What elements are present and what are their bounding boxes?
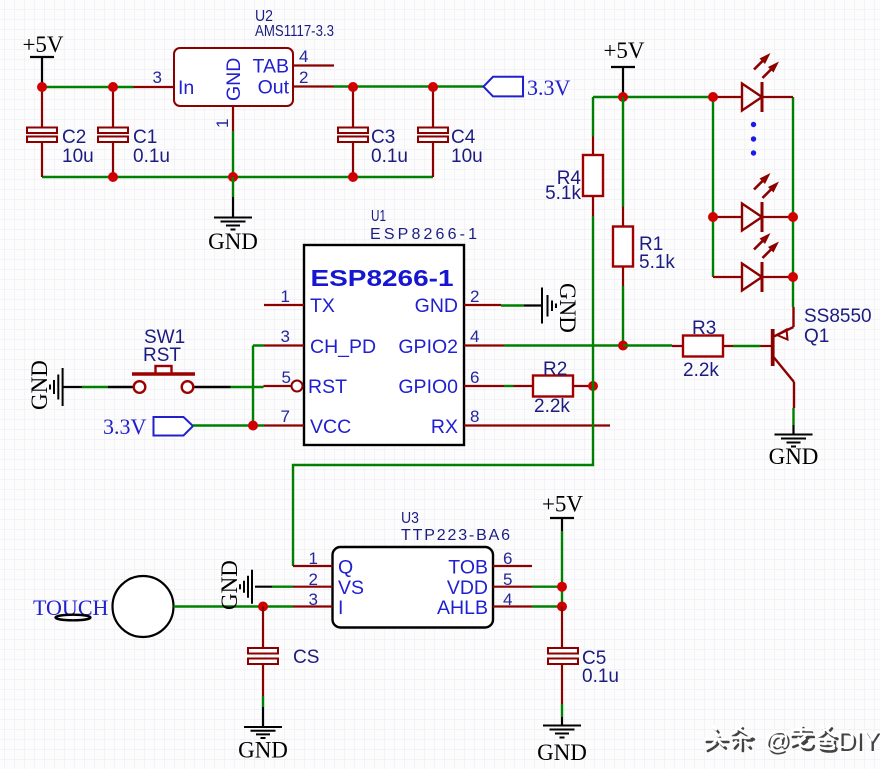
capacitor CS [248,607,319,697]
wire U2 pin1 to gnd rail [232,131,234,177]
U1 pin 6 GPIO0 [398,368,504,398]
wire +5V rail to U2 In [42,86,134,88]
svg-text:TAB: TAB [253,56,289,78]
net flag 3.3V (to VCC) [103,414,264,439]
svg-text:6: 6 [503,549,512,568]
svg-text:RST: RST [308,376,347,398]
svg-text:5.1k: 5.1k [545,183,581,204]
U1 pin 5 RST (inverted) [264,368,348,398]
svg-text:2: 2 [309,570,318,589]
svg-text:7: 7 [281,407,290,426]
U2 pin 1 GND (bottom) [213,58,245,131]
node junction (623,345.5) [618,341,628,351]
wire R1 down to GPIO2 node [622,286,624,346]
svg-text:2.2k: 2.2k [534,396,570,417]
U3 pin 6 TOB [448,549,532,579]
svg-text:GND: GND [555,283,580,333]
wire TOUCH to U3 pin I [174,605,294,607]
U1 pin 3 CH_PD [264,327,376,358]
wire Q1 emitter to gnd [792,408,794,425]
wire bottom gnd rail [42,176,433,178]
svg-text:+5V: +5V [542,492,583,517]
ground (under CS) [238,696,288,763]
svg-text:SS8550: SS8550 [804,306,872,327]
ground (under U2) [208,177,258,254]
capacitor C1 [98,87,170,177]
dotted continuation marks [751,122,756,127]
LED anode rail (left) [712,97,714,277]
svg-text:VCC: VCC [310,416,351,438]
power flag +5V (bottom) [542,492,583,532]
svg-text:I: I [338,597,343,619]
U3 pin 3 I [293,590,343,619]
node junction (353,87) [348,82,358,92]
svg-text:3.3V: 3.3V [103,414,147,439]
node junction (253,425.5) [248,421,258,431]
wire R1 branch [622,97,624,207]
svg-text:+5V: +5V [603,38,644,63]
node junction (562,586.7) [557,582,567,592]
capacitor C5 [548,607,619,705]
capacitor C4 [418,87,483,177]
svg-text:AHLB: AHLB [437,597,488,619]
U1 pin 4 GPIO2 [398,327,504,358]
U3 pin 1 Q [293,549,353,579]
node junction (433,87) [428,82,438,92]
LED D2 [713,173,793,232]
resistor R3 2.2k [672,318,733,381]
wire R3 to Q1 base [733,345,761,347]
svg-text:Q1: Q1 [804,326,829,347]
svg-text:GND: GND [217,560,242,610]
node junction (793,277) [788,272,798,282]
regulator U2 AMS1117-3.3 body [174,8,334,106]
svg-text:1: 1 [281,287,290,306]
node junction (233,177) [228,172,238,182]
U3 pin 4 AHLB [437,590,532,619]
svg-text:C4: C4 [451,127,476,148]
svg-text:5: 5 [282,368,291,387]
svg-text:GPIO2: GPIO2 [398,336,458,358]
svg-text:5: 5 [503,570,512,589]
net flag 3.3V (output) [484,75,571,100]
svg-text:GND: GND [223,58,245,101]
svg-text:C3: C3 [371,127,395,148]
svg-text:3: 3 [281,327,290,346]
IC U3 TTP223-BA6 body [333,510,511,628]
svg-text:3: 3 [309,590,318,609]
node junction (593,386) [588,381,598,391]
svg-text:4: 4 [503,590,512,609]
svg-text:ESP8266-1: ESP8266-1 [370,226,477,243]
svg-text:GND: GND [238,738,288,763]
touch pad TOUCH [33,576,174,637]
svg-text:C2: C2 [62,127,86,148]
wire SW1 to RST [82,386,264,388]
svg-text:GND: GND [27,360,52,410]
svg-text:10u: 10u [451,146,483,167]
svg-text:C1: C1 [133,127,157,148]
ground (left of U3 VS, rotated) [217,560,293,610]
wire CH_PD to VCC (vertical) [253,346,264,426]
node junction (113,87) [108,82,118,92]
svg-text:0.1u: 0.1u [133,146,170,167]
svg-text:RST: RST [143,345,181,366]
LED D1 [713,53,793,112]
wire U2 Out to 3.3V flag [334,85,485,87]
capacitor C3 [338,87,408,177]
svg-text:CS: CS [293,647,319,668]
wire GPIO2 node to R3 [623,344,672,346]
svg-text:10u: 10u [62,146,94,167]
wire +5V rail top right [593,96,713,98]
power flag +5V (right) [603,38,644,97]
svg-text:2.2k: 2.2k [683,360,719,381]
U1 pin 8 RX [431,407,610,438]
svg-text:VDD: VDD [447,577,488,599]
svg-text:0.1u: 0.1u [371,146,408,167]
svg-text:TOB: TOB [448,557,488,579]
transistor Q1 SS8550 [761,306,872,408]
wire +5V to VDD/AHLB [532,531,562,607]
svg-text:4: 4 [299,47,308,66]
watermark 头条 @老爸DIY [705,725,880,757]
svg-text:Q: Q [338,557,353,579]
svg-text:AMS1117-3.3: AMS1117-3.3 [255,23,334,40]
svg-text:ESP8266-1: ESP8266-1 [311,265,454,291]
svg-text:2: 2 [470,287,479,306]
svg-text:TTP223-BA6: TTP223-BA6 [401,527,510,544]
svg-text:+5V: +5V [22,32,63,57]
svg-text:R3: R3 [692,318,716,339]
LED cathode rail (right) [792,97,794,307]
svg-text:6: 6 [470,368,479,387]
power flag +5V (top-left) [22,32,63,87]
svg-text:GND: GND [769,444,819,469]
node junction (263,606.5) [258,602,268,612]
wire R4 down to GPIO0 node [592,216,594,386]
svg-text:TX: TX [310,295,335,317]
svg-text:GND: GND [415,295,458,317]
U3 pin 5 VDD [447,570,532,599]
U1 pin 1 TX [264,287,335,317]
wire GPIO2 to node [504,344,623,346]
svg-text:8: 8 [470,407,479,426]
resistor R4 5.1k [545,137,603,217]
wire GPIO0 to R2 [504,385,514,387]
svg-text:R2: R2 [543,359,567,380]
op IC U1 ESP8266-1 body [304,208,477,445]
svg-text:U3: U3 [401,510,419,527]
svg-text:3.3V: 3.3V [527,75,571,100]
U2 pin 4 TAB [253,47,334,78]
svg-text:1: 1 [213,119,232,128]
U2 pin 2 Out [258,68,334,99]
node junction (42,87) [37,82,47,92]
ground (right of U1 pin2, rotated) [501,283,580,333]
svg-text:3: 3 [153,68,162,87]
resistor R1 5.1k [613,207,675,287]
svg-text:GPIO0: GPIO0 [398,376,458,398]
LED D3 [713,233,793,292]
node junction (623,97) [618,92,628,102]
capacitor C2 [27,87,94,177]
node junction (113,177) [108,172,118,182]
svg-text:U1: U1 [371,208,386,225]
svg-text:4: 4 [470,327,479,346]
node junction (793,217) [788,212,798,222]
U1 pin 7 VCC [264,407,351,438]
svg-text:Out: Out [258,77,290,99]
svg-text:RX: RX [431,416,458,438]
svg-text:GND: GND [208,229,258,254]
svg-text:CH_PD: CH_PD [310,336,376,358]
svg-text:TOUCH: TOUCH [33,595,108,620]
svg-text:In: In [178,77,194,99]
wire R4 branch [592,97,594,137]
ground (under C5) [537,704,587,765]
svg-text:1: 1 [309,549,318,568]
resistor R2 2.2k [514,359,594,417]
node junction (562,606.5) [557,602,567,612]
svg-text:5.1k: 5.1k [639,252,675,273]
ground (under Q1) [769,425,819,469]
wire GPIO0 net down to U3 Q [293,386,593,566]
node junction (353,177) [348,172,358,182]
svg-text:GND: GND [537,740,587,765]
svg-text:0.1u: 0.1u [582,666,619,687]
ground (left of SW1, rotated) [27,360,82,410]
node junction (713,97) [708,92,718,102]
switch SW1 RST [108,327,231,393]
U2 pin 3 In [134,68,195,99]
svg-text:VS: VS [338,577,364,599]
svg-text:2: 2 [299,68,308,87]
node junction (713,217) [708,212,718,222]
U3 pin 2 VS [293,570,364,599]
U1 pin 2 GND [415,287,501,317]
